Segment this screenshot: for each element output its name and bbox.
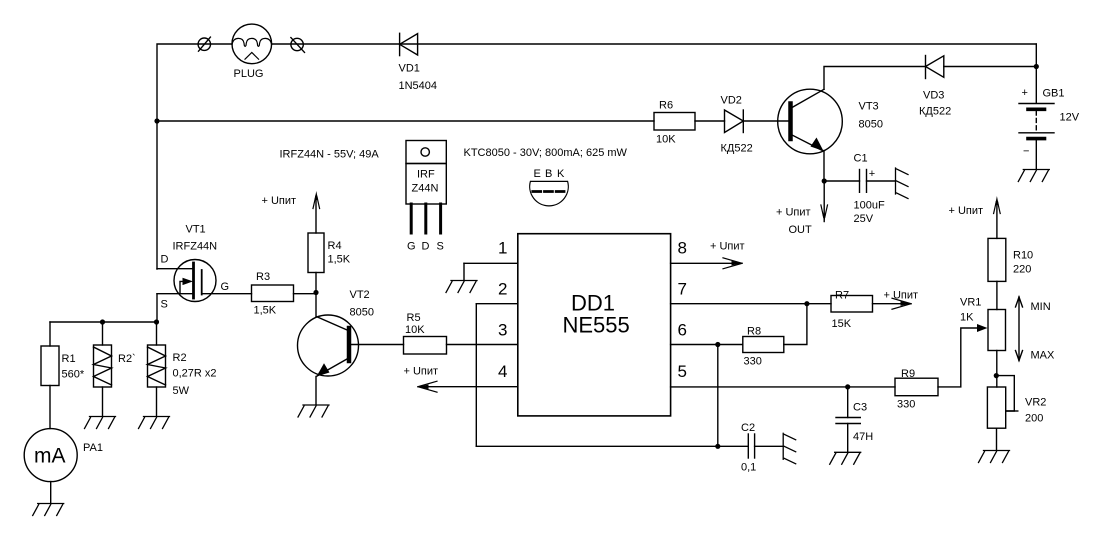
- junction pin6: [715, 342, 720, 347]
- power arrow +Upit above R10: [949, 196, 1001, 238]
- svg-text:10K: 10K: [656, 134, 676, 146]
- plug PLUG: [232, 24, 272, 80]
- svg-text:PLUG: PLUG: [234, 68, 264, 80]
- svg-text:K: K: [557, 168, 565, 180]
- pin 1: [464, 239, 518, 281]
- svg-text:G: G: [407, 241, 416, 253]
- svg-text:+ Uпит: + Uпит: [262, 195, 297, 207]
- svg-text:4: 4: [498, 362, 507, 381]
- svg-text:R1: R1: [62, 353, 76, 365]
- svg-text:200: 200: [1025, 413, 1043, 425]
- svg-text:5W: 5W: [173, 385, 190, 397]
- svg-text:1K: 1K: [960, 312, 974, 324]
- wire sense bus: [50, 321, 157, 323]
- svg-text:PA1: PA1: [83, 442, 103, 454]
- potentiometer VR1 1K: [960, 297, 1006, 388]
- ground below C3: [830, 452, 861, 464]
- svg-text:R5: R5: [407, 312, 421, 324]
- svg-text:8050: 8050: [859, 119, 883, 131]
- battery GB1 12V: [1019, 87, 1080, 169]
- resistor R8 330: [743, 304, 807, 368]
- svg-text:КД522: КД522: [919, 106, 951, 118]
- svg-text:R2`: R2`: [118, 353, 136, 365]
- wire VD3 to battery riser: [944, 66, 1037, 68]
- meter PA1 mA: [24, 429, 103, 503]
- diode VD3 KD522: [919, 56, 951, 118]
- svg-text:+: +: [1022, 87, 1028, 99]
- resistor R3 1,5K: [252, 271, 317, 317]
- svg-text:D: D: [161, 254, 169, 266]
- wire second bus: [157, 120, 654, 122]
- svg-text:C2: C2: [741, 422, 755, 434]
- junction battery riser: [1034, 64, 1039, 69]
- transistor VT2 8050: [298, 289, 374, 405]
- resistor R2' (wirewound): [94, 322, 136, 416]
- svg-text:0,27R x2: 0,27R x2: [173, 368, 217, 380]
- svg-text:IRFZ44N - 55V; 49A: IRFZ44N - 55V; 49A: [280, 149, 380, 161]
- svg-text:+ Uпит: + Uпит: [710, 241, 745, 253]
- svg-text:КД522: КД522: [721, 143, 753, 155]
- svg-text:IRFZ44N: IRFZ44N: [173, 241, 218, 253]
- ground side C1: [896, 168, 909, 199]
- label MIN MAX arrows: [1016, 297, 1056, 362]
- svg-text:VR2: VR2: [1025, 397, 1046, 409]
- svg-text:VR1: VR1: [960, 297, 981, 309]
- svg-text:D: D: [422, 241, 430, 253]
- connector right: [291, 38, 305, 53]
- wire S down to sense node: [156, 294, 158, 322]
- svg-text:VT2: VT2: [350, 289, 370, 301]
- wire VT3 emitter down: [823, 151, 825, 182]
- wire VD2 to VT3 base: [743, 120, 789, 122]
- svg-text:3: 3: [498, 321, 507, 340]
- svg-text:8: 8: [678, 239, 687, 258]
- ground below PA1: [33, 504, 64, 516]
- potentiometer VR2 200: [987, 376, 1046, 450]
- svg-text:S: S: [437, 241, 444, 253]
- pin 6: [671, 321, 743, 345]
- svg-text:1,5K: 1,5K: [254, 305, 277, 317]
- package TO-92 KTC8050: [530, 168, 569, 206]
- resistor R1 560*: [41, 322, 85, 429]
- pin 7: [671, 280, 831, 304]
- svg-text:+ Uпит: + Uпит: [404, 366, 439, 378]
- resistor R7 15K: [831, 290, 873, 331]
- svg-text:15K: 15K: [832, 318, 852, 330]
- mosfet VT1 IRFZ44N: [157, 224, 252, 311]
- svg-text:+ Uпит: + Uпит: [776, 207, 811, 219]
- resistor R2 0,27R x2 5W (wirewound): [148, 322, 217, 416]
- junction R3/R4/VT2: [313, 290, 318, 295]
- svg-text:IRF: IRF: [417, 169, 435, 181]
- svg-text:VT1: VT1: [186, 224, 206, 236]
- capacitor C1 100uF 25V: [824, 153, 895, 226]
- svg-text:6: 6: [678, 321, 687, 340]
- pin 4: [404, 362, 518, 392]
- svg-text:+ Uпит: + Uпит: [884, 290, 919, 302]
- svg-text:R6: R6: [659, 100, 673, 112]
- output arrow +Upit OUT: [776, 181, 828, 236]
- junction VR1/VR2: [994, 373, 999, 378]
- ground side C2: [783, 433, 796, 464]
- svg-text:560*: 560*: [62, 369, 85, 381]
- svg-text:B: B: [545, 168, 552, 180]
- svg-text:MAX: MAX: [1031, 350, 1056, 362]
- wire VT3 collector riser and top link: [824, 67, 926, 90]
- wire R6 to VD2: [695, 120, 725, 122]
- svg-text:C1: C1: [854, 153, 868, 165]
- wire pin6 junction down: [717, 345, 719, 447]
- svg-text:R9: R9: [901, 368, 915, 380]
- capacitor C3 47H: [836, 387, 873, 452]
- svg-text:mA: mA: [34, 445, 66, 468]
- wire top bus: [157, 44, 232, 269]
- svg-text:2: 2: [498, 280, 507, 299]
- svg-text:−: −: [1023, 146, 1029, 158]
- svg-text:+ Uпит: + Uпит: [949, 205, 984, 217]
- svg-text:E: E: [534, 168, 541, 180]
- svg-text:MIN: MIN: [1031, 301, 1051, 313]
- svg-text:GB1: GB1: [1043, 88, 1065, 100]
- ground below R2: [139, 417, 170, 429]
- junction C3 tap: [845, 384, 850, 389]
- svg-text:VD1: VD1: [399, 63, 420, 75]
- svg-text:100uF: 100uF: [854, 200, 885, 212]
- svg-text:VD2: VD2: [721, 95, 742, 107]
- ground below VT2: [298, 405, 329, 417]
- junction R2' tap: [100, 319, 105, 324]
- resistor R5 10K: [404, 312, 518, 354]
- transistor VT3 8050: [778, 89, 883, 154]
- ground pin 1: [446, 281, 477, 293]
- junction R2 tap: [154, 319, 159, 324]
- ground below GB1: [1018, 170, 1049, 182]
- junction bottom wire: [715, 444, 720, 449]
- power arrow +Upit after R7: [873, 290, 919, 310]
- svg-text:NE555: NE555: [563, 313, 630, 338]
- svg-text:C3: C3: [853, 402, 867, 414]
- svg-text:47H: 47H: [853, 431, 873, 443]
- junction emitter node: [822, 178, 827, 183]
- wire VT2 base to R5: [349, 344, 404, 346]
- capacitor C2 0,1: [741, 422, 783, 474]
- svg-text:7: 7: [678, 280, 687, 299]
- power arrow +Upit above R4: [262, 191, 320, 209]
- connector left: [198, 37, 210, 51]
- package TO-220 IRF Z44N: [406, 141, 446, 253]
- svg-text:+: +: [869, 168, 875, 180]
- resistor R6 10K: [654, 100, 695, 146]
- svg-text:OUT: OUT: [789, 224, 813, 236]
- pin 2: [476, 280, 518, 447]
- junction at second bus: [154, 118, 159, 123]
- svg-text:VT3: VT3: [859, 101, 879, 113]
- svg-text:0,1: 0,1: [741, 462, 756, 474]
- svg-text:330: 330: [897, 399, 915, 411]
- svg-text:Z44N: Z44N: [412, 183, 439, 195]
- svg-text:1,5K: 1,5K: [328, 254, 351, 266]
- junction pin7/R8: [804, 301, 809, 306]
- ground below VR2: [979, 451, 1010, 463]
- svg-text:R2: R2: [173, 352, 187, 364]
- pin 8: [671, 239, 745, 269]
- svg-text:330: 330: [744, 356, 762, 368]
- svg-text:R4: R4: [328, 240, 342, 252]
- svg-text:220: 220: [1013, 264, 1031, 276]
- ground below R2': [85, 417, 116, 429]
- svg-text:8050: 8050: [350, 307, 374, 319]
- diode VD2 KD522: [721, 95, 753, 155]
- svg-text:25V: 25V: [854, 213, 874, 225]
- resistor R10 220: [988, 238, 1033, 309]
- IC DD1 NE555: [518, 234, 671, 416]
- svg-text:1: 1: [498, 239, 507, 258]
- svg-text:S: S: [161, 299, 168, 311]
- pin 5: [671, 362, 895, 387]
- wire bottom bus: [476, 445, 748, 447]
- svg-text:R8: R8: [747, 326, 761, 338]
- svg-text:KTC8050 - 30V; 800mA; 625 mW: KTC8050 - 30V; 800mA; 625 mW: [464, 147, 628, 159]
- diode VD1 1N5404: [399, 33, 438, 92]
- svg-text:10K: 10K: [405, 324, 425, 336]
- svg-text:1N5404: 1N5404: [399, 80, 438, 92]
- svg-text:G: G: [221, 281, 230, 293]
- svg-text:VD3: VD3: [923, 90, 944, 102]
- svg-text:R10: R10: [1013, 250, 1033, 262]
- resistor R4 1,5K: [308, 196, 351, 293]
- svg-text:R7: R7: [835, 290, 849, 302]
- svg-text:R3: R3: [256, 271, 270, 283]
- resistor R9 330: [895, 328, 978, 411]
- svg-text:12V: 12V: [1060, 112, 1080, 124]
- svg-text:5: 5: [678, 362, 687, 381]
